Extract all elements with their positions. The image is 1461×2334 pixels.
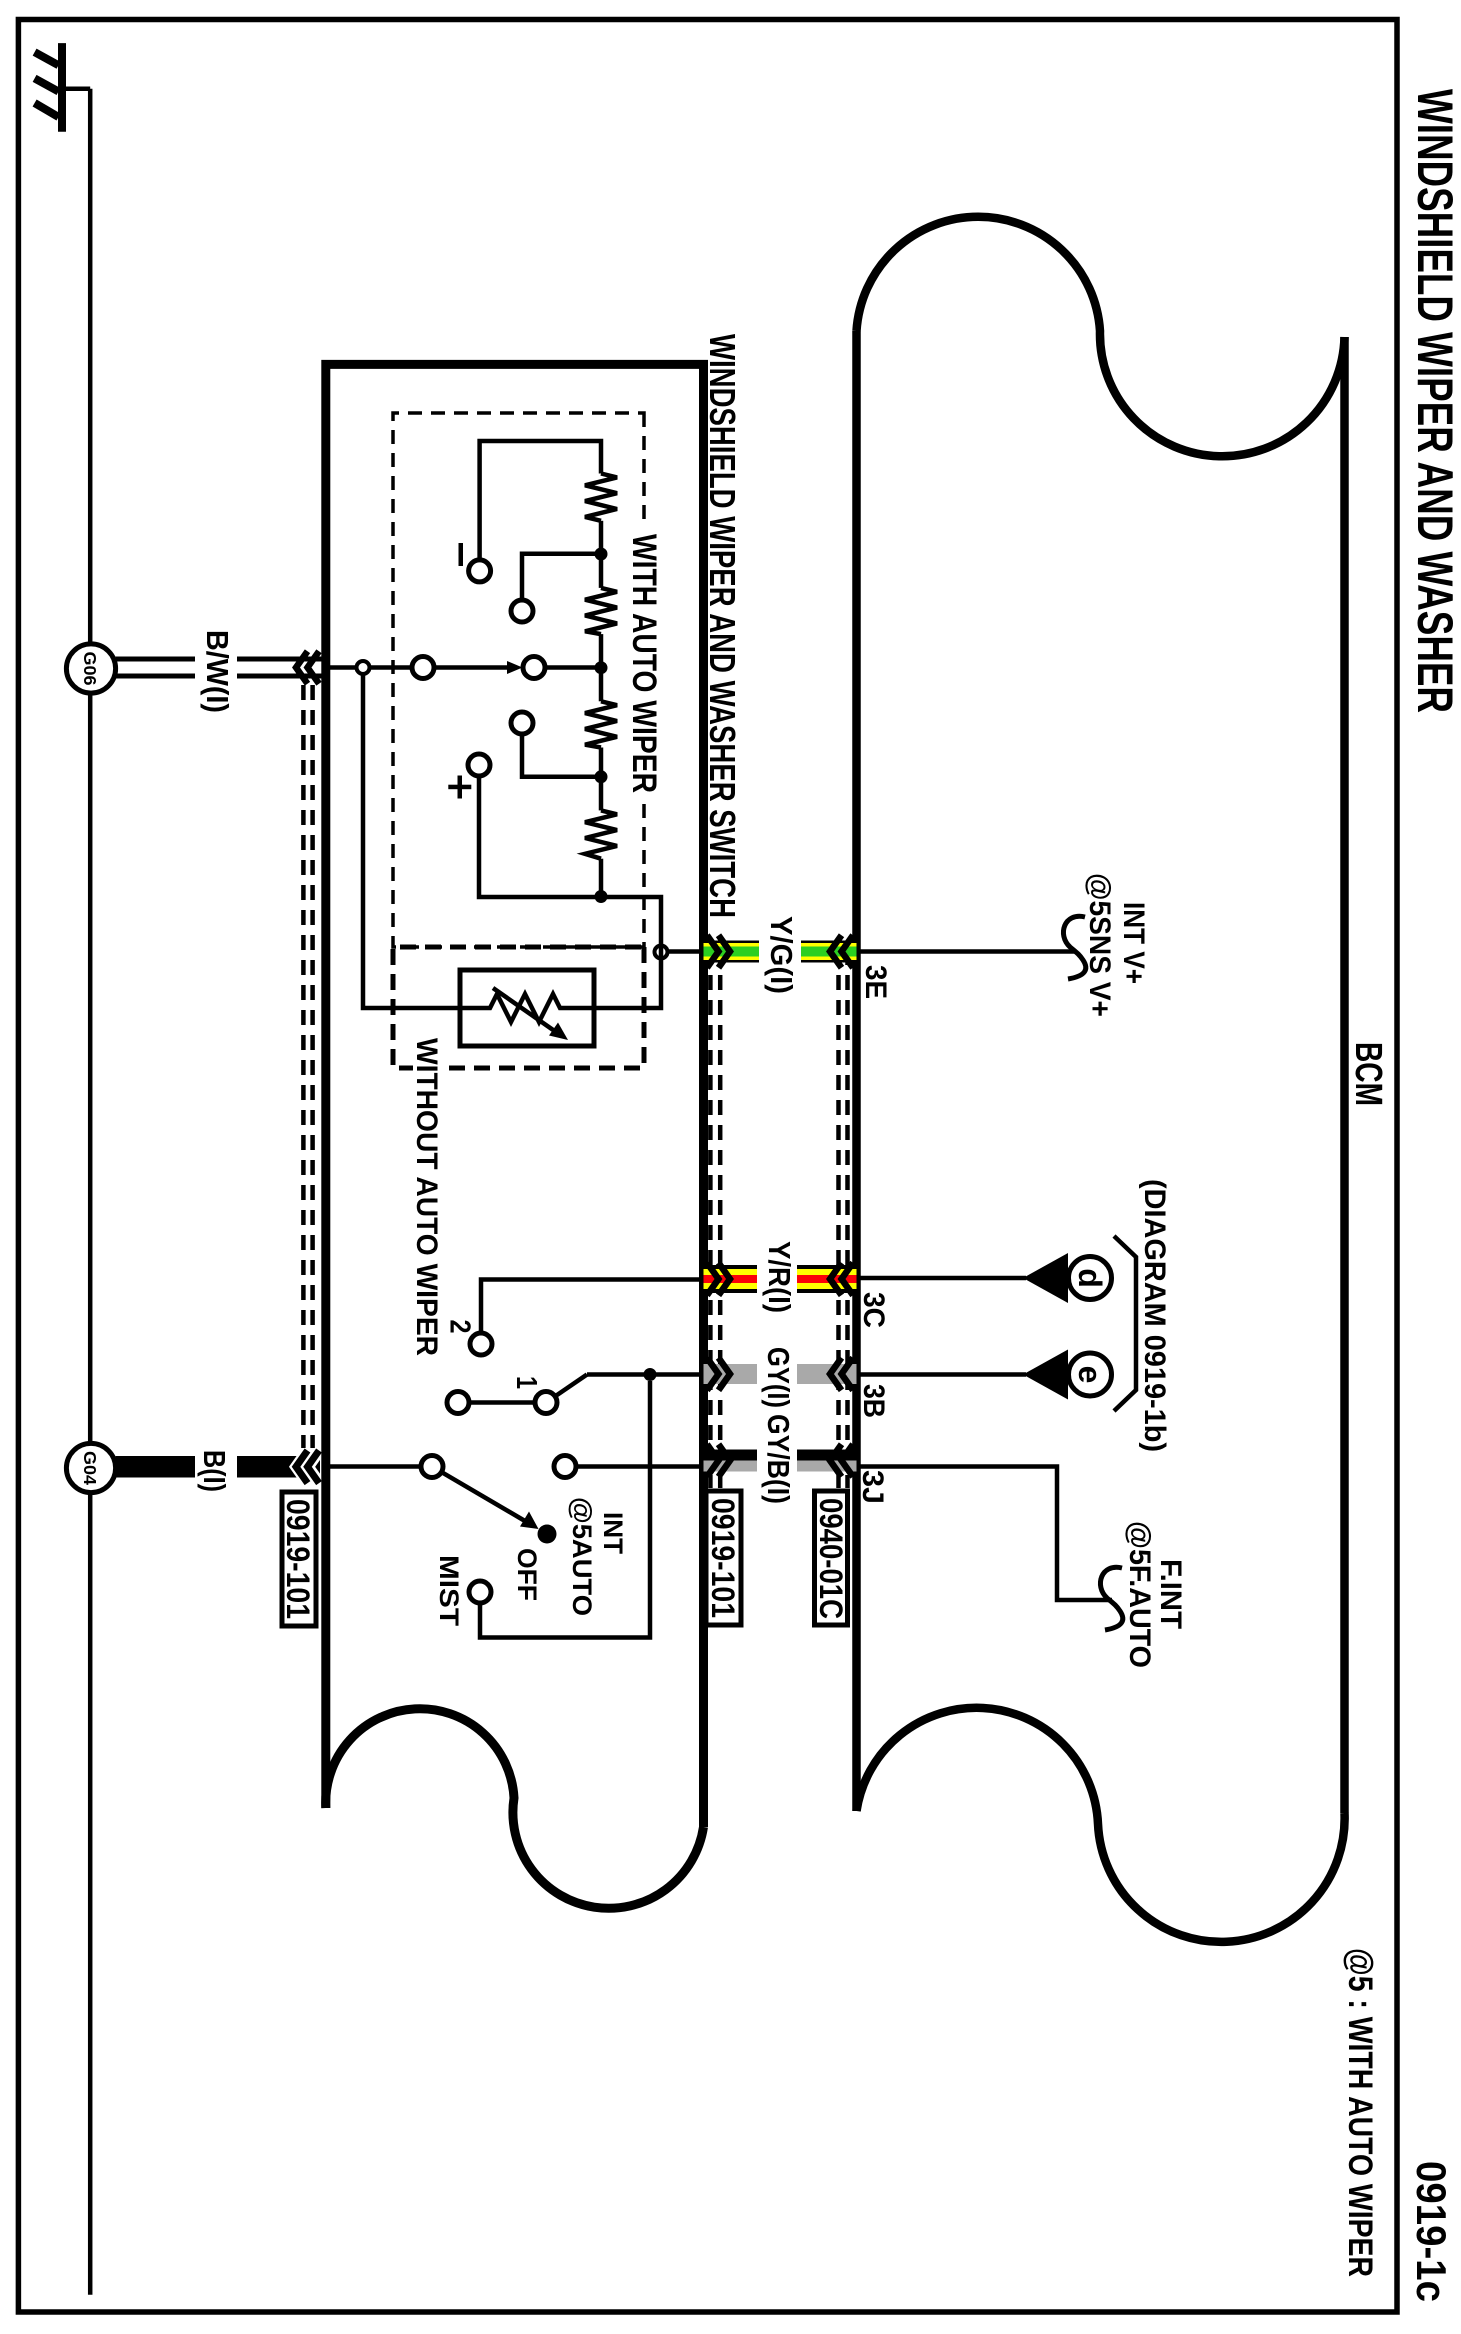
svg-text:Y/R(I): Y/R(I)	[762, 1241, 797, 1313]
label Y/G(I)	[759, 910, 801, 1000]
svg-text:INT: INT	[598, 1512, 628, 1554]
svg-text:3B: 3B	[857, 1384, 890, 1418]
wire B(I) thick from G04 to switch	[116, 1456, 320, 1478]
circle e	[1069, 1353, 1112, 1396]
svg-text:WITHOUT AUTO WIPER: WITHOUT AUTO WIPER	[410, 1038, 443, 1356]
dashed connector line pair along BCM bottom edge (0940-01C)	[839, 950, 848, 1488]
svg-text:WINDSHIELD WIPER AND WASHER SW: WINDSHIELD WIPER AND WASHER SWITCH	[702, 334, 743, 918]
label WITHOUT AUTO WIPER	[413, 1034, 442, 1360]
connector label box 0919-101 (switch side)	[706, 1491, 741, 1625]
plus sign	[458, 776, 463, 799]
OFF position dot	[538, 1525, 557, 1544]
BCM pin 3J wire	[857, 1467, 1113, 1601]
svg-text:F.INT: F.INT	[1154, 1559, 1187, 1629]
bracket for diagram reference	[1114, 1236, 1136, 1411]
chevrons GY/B at switch edge (up)	[707, 1444, 730, 1477]
continuation squiggle 3J	[1100, 1567, 1122, 1630]
svg-text:0919-101: 0919-101	[280, 1499, 316, 1619]
svg-text:0919-101: 0919-101	[705, 1498, 741, 1618]
junction dot 2	[595, 661, 608, 674]
resistor R-b	[585, 588, 617, 634]
ground rail wire	[88, 89, 93, 2295]
svg-text:G06: G06	[80, 652, 100, 686]
ground symbol	[35, 43, 91, 132]
junction circle (small) on B/W line	[357, 661, 370, 674]
wire GY/B(I) switch to BCM 3J	[704, 1450, 857, 1472]
BCM pin 3E wire	[857, 949, 1076, 954]
chevrons Y/R at switch edge (up)	[707, 1263, 730, 1296]
svg-text:WITH AUTO WIPER: WITH AUTO WIPER	[625, 534, 663, 793]
svg-text:0940-01C: 0940-01C	[813, 1498, 849, 1619]
svg-text:INT V+: INT V+	[1117, 902, 1150, 984]
dashed connector line pair along switch top edge (0919-101)	[710, 950, 720, 1488]
wire Y/R(I) switch to BCM 3C	[704, 1265, 857, 1293]
svg-text:GY/B(I): GY/B(I)	[761, 1414, 796, 1504]
variable resistor box	[460, 970, 594, 1046]
label B(I)	[195, 1446, 237, 1494]
variable resistor branch wire	[363, 674, 460, 1008]
svg-text:3C: 3C	[857, 1292, 890, 1328]
chevrons GY at BCM edge (down)	[830, 1358, 853, 1391]
svg-text:3E: 3E	[859, 965, 892, 999]
MIST contact circle	[469, 1581, 491, 1603]
svg-text:2: 2	[444, 1320, 476, 1334]
svg-text:e: e	[1072, 1366, 1108, 1384]
connector label box 0919-101 (bottom)	[282, 1492, 316, 1626]
chevrons GY at switch edge (up)	[707, 1358, 730, 1391]
svg-text:B(I): B(I)	[197, 1450, 232, 1492]
resistor R-d	[585, 810, 617, 858]
svg-text:1: 1	[510, 1376, 542, 1389]
wire Y/G(I) switch to BCM 3E	[704, 941, 857, 963]
wiper arm arrow to resistor tap	[434, 665, 511, 670]
plus contact circle	[468, 754, 490, 776]
variable resistor zigzag	[460, 994, 594, 1022]
svg-text:MIST: MIST	[434, 1555, 464, 1627]
svg-text:@5AUTO: @5AUTO	[567, 1497, 597, 1616]
label Y/R(I)	[757, 1236, 797, 1320]
rotary arm with arrow to OFF dot	[442, 1472, 526, 1521]
dashed box WITHOUT AUTO WIPER	[393, 947, 644, 1068]
svg-text:WINDSHIELD WIPER AND WASHER: WINDSHIELD WIPER AND WASHER	[1407, 89, 1461, 713]
GY pin line and junction dot	[587, 1372, 704, 1377]
chevrons Y/R at BCM edge (down)	[830, 1263, 853, 1296]
svg-text:3J: 3J	[856, 1470, 889, 1504]
svg-text:d: d	[1072, 1268, 1108, 1288]
contact 1 circles	[535, 1392, 557, 1414]
svg-text:GY(I): GY(I)	[761, 1347, 796, 1408]
chevrons GY/B at BCM edge (down)	[830, 1444, 853, 1477]
wire GY(I) switch to BCM 3B	[704, 1364, 857, 1384]
svg-text:(DIAGRAM 0919-1b): (DIAGRAM 0919-1b)	[1138, 1179, 1171, 1452]
junction dot 4 (chain bottom)	[595, 890, 608, 903]
switch internal: B/W entry line and junctions	[326, 665, 357, 670]
contact 2 circle and wire to Y/R	[470, 1333, 492, 1355]
arrow to diagram e	[1023, 1350, 1068, 1400]
resistor tap contact circle	[523, 657, 545, 679]
resistor R-c	[585, 701, 617, 747]
variable resistor arrow	[493, 988, 556, 1032]
label WITH AUTO WIPER	[628, 528, 661, 798]
dashed box WITH AUTO WIPER	[393, 413, 644, 947]
wire B/W(I) double line from G06 to switch	[116, 657, 326, 662]
svg-text:@5 : WITH AUTO WIPER: @5 : WITH AUTO WIPER	[1341, 1948, 1379, 2277]
svg-text:Y/G(I): Y/G(I)	[764, 916, 799, 994]
plus contact wire to chain bottom	[479, 776, 595, 897]
chevrons Y/G at switch edge (up)	[707, 935, 730, 968]
labels GY(I) GY/B(I)	[757, 1340, 797, 1510]
label B/W(I)	[195, 628, 237, 714]
connector label box 0940-01C (BCM side)	[815, 1491, 848, 1625]
svg-text:OFF: OFF	[512, 1548, 542, 1601]
branch dot1 to contact	[522, 554, 601, 600]
GY/B output contact	[554, 1456, 576, 1478]
component box: BCM	[857, 217, 1345, 1942]
connector chevron B/W at switch bottom edge	[296, 651, 319, 684]
BCM pin 3B wire	[857, 1372, 1027, 1377]
B(I) feed contact inside switch	[326, 1464, 421, 1469]
chevrons Y/G at BCM edge (down)	[830, 935, 853, 968]
circle d	[1069, 1257, 1112, 1300]
ground G04	[66, 1443, 115, 1492]
svg-text:@5SNS V+: @5SNS V+	[1083, 873, 1116, 1017]
junction dot 3	[595, 770, 608, 783]
MIST wire to GY junction	[480, 1381, 650, 1638]
wiper arm contact circle (feed)	[412, 657, 434, 679]
connector chevron B(I) at switch bottom edge	[296, 1450, 320, 1485]
minus contact circle	[469, 560, 491, 582]
junction circle Y/G output	[655, 946, 668, 959]
svg-text:@5F.AUTO: @5F.AUTO	[1123, 1521, 1156, 1668]
wire chain bottom to Y/G junction	[601, 897, 661, 946]
minus sign	[459, 543, 464, 566]
svg-text:B/W(I): B/W(I)	[200, 630, 235, 713]
component box: windshield wiper and washer switch	[326, 364, 704, 1908]
BCM pin 3C wire	[857, 1276, 1027, 1281]
svg-text:BCM: BCM	[1347, 1042, 1389, 1106]
svg-text:G04: G04	[80, 1451, 100, 1485]
svg-text:0919-1c: 0919-1c	[1408, 2161, 1455, 2302]
continuation squiggle 3E	[1063, 916, 1085, 979]
resistor R-a	[585, 474, 617, 521]
ground G06	[66, 644, 115, 693]
resistor chain wire corner to minus contact	[480, 441, 601, 560]
branch dot3 to contact	[522, 734, 601, 777]
arrow to diagram d	[1023, 1253, 1068, 1303]
contact 1 diagonal arm	[555, 1375, 587, 1397]
dashed connector line pair along switch bottom edge (0919-101)	[303, 685, 312, 1448]
junction dot 1	[595, 548, 608, 561]
